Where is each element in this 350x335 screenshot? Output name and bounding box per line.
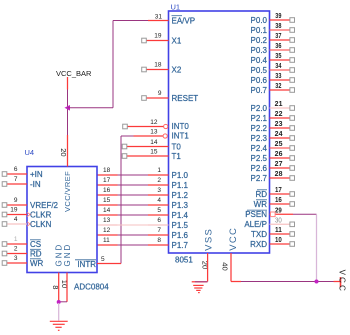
svg-text:13: 13 [150,129,158,136]
U4 pin 1 CS name [30,240,41,249]
svg-text:P0.6: P0.6 [251,76,268,85]
svg-text:P1.0: P1.0 [172,171,189,180]
wire DB3 stub [97,204,118,206]
wire P1.4 stub [148,214,169,216]
wire net DB7 to P1.7 [118,244,149,246]
wire net DB1 to P1.1 [118,184,149,186]
svg-text:T0: T0 [172,142,182,151]
U4 pin 16 number [103,187,111,194]
U1 pin 10 number [275,237,282,244]
U1 pin 24 P2.3 name [251,134,268,143]
svg-text:37: 37 [275,33,281,40]
svg-text:15: 15 [150,149,158,156]
svg-text:23: 23 [275,121,283,128]
U1 pin 18 number [154,62,162,69]
svg-text:3: 3 [14,255,18,262]
svg-text:31: 31 [155,14,163,21]
U4 pin 5 number [101,256,105,263]
terminal square INT0 [123,124,128,129]
svg-text:1: 1 [14,236,18,243]
wire CS U4 stub [7,243,27,245]
wire DB6 stub [97,234,118,236]
svg-text:WR: WR [30,259,44,268]
svg-text:16: 16 [275,197,282,204]
U1 pin 39 number [275,13,281,20]
svg-text:18: 18 [154,62,162,69]
U4 pin 14 DB4 name [78,211,94,220]
wire RD stub [270,193,291,195]
svg-text:16: 16 [103,187,111,194]
terminal square P2.3 [290,136,295,141]
wire net INT1 to INTR vertical [120,136,122,264]
svg-text:24: 24 [275,131,283,138]
wire P2.4 stub [270,147,291,149]
svg-text:EA/VP: EA/VP [172,16,196,25]
U1 pin 1 number [157,167,161,174]
U1 pin 30 ALE/P name [244,220,267,229]
svg-text:12: 12 [103,227,111,234]
wire DB0 stub [97,174,118,176]
svg-text:11: 11 [103,237,110,244]
U1 pin 4 number [157,197,161,204]
U1 pin 16 number [275,197,282,204]
wire P2.3 stub [270,137,291,139]
svg-text:P2.0: P2.0 [251,104,268,113]
wire P2.6 stub [270,167,291,169]
wire P0.4 stub [270,59,291,61]
U4 part value label ADC0804 [74,283,109,292]
U4 pin 8 GND name [54,243,63,267]
wire P0.1 stub [270,29,291,31]
wire VSS stub [207,253,209,282]
wire GND pin10 horizontal [59,301,67,303]
svg-text:28: 28 [275,171,283,178]
U4 pin 6 number [14,166,18,173]
U1 pin 13 INT1 name [172,132,190,141]
U1 pin 4 P1.3 name [172,201,189,210]
wire P0.7 stub [270,89,291,91]
U1 pin 8 P1.7 name [172,241,189,250]
U1 pin 20 VSS name [204,228,215,251]
terminal square U4 CS [2,242,7,247]
svg-text:14: 14 [103,207,111,214]
wire DB5 stub [97,224,118,226]
terminal square P0.4 [290,58,295,63]
U1 pin 38 number [275,23,281,30]
U1 pin 39 P0.0 name [251,16,268,25]
wire INT1 stub [134,135,164,137]
wire INTR stub [97,263,121,265]
terminal square T1 [122,154,127,159]
wire P0.3 stub [270,49,291,51]
svg-text:36: 36 [275,43,281,50]
U1 pin 13 number [150,129,158,136]
terminal square U4 VREF/2 [2,203,7,208]
terminal square P2.5 [290,156,295,161]
svg-text:8051: 8051 [175,256,193,265]
U4 pin 14 number [103,207,111,214]
wire P1.7 stub [148,244,169,246]
U4 pin 12 number [103,227,111,234]
svg-text:34: 34 [275,63,281,70]
U1 pin 40 number [221,262,230,270]
terminal square U4 RD [2,251,7,256]
svg-text:11: 11 [275,227,282,234]
wire T0 stub [127,146,169,148]
U4 pin 19 CLKR name [30,210,52,219]
wire P2.2 stub [270,127,291,129]
U1 pin 2 number [157,177,161,184]
svg-text:VCC_BAR: VCC_BAR [56,69,92,78]
svg-text:PSEN: PSEN [245,210,267,219]
U1 pin 24 number [275,131,283,138]
terminal square P0.3 [290,48,295,53]
U1 pin 7 P1.6 name [172,231,189,240]
svg-text:P1.3: P1.3 [172,201,189,210]
svg-text:RD: RD [30,249,42,258]
U1 pin 33 P0.6 name [251,76,268,85]
U1 pin 19 X1 name [172,36,182,45]
U4 pin 11 DB7 name [78,241,94,250]
terminal square T0 [122,144,127,149]
U1 pin 28 P2.7 name [251,174,268,183]
svg-text:P0.4: P0.4 [251,56,268,65]
svg-text:U1: U1 [171,3,181,12]
wire INT0 stub [128,126,164,128]
U1 part value label 8051 [175,256,193,265]
wire X2 stub [147,69,169,71]
U1 pin 31 number [155,14,163,21]
wire VREF/2 U4 stub [7,204,27,206]
U4 pin 17 number [103,177,111,184]
inversion bubble INT1 [163,134,167,138]
wire RXD stub [270,243,291,245]
terminal square X1 [142,38,147,43]
svg-text:19: 19 [154,33,162,40]
svg-text:6: 6 [157,217,161,224]
svg-text:P2.6: P2.6 [251,164,268,173]
svg-text:10: 10 [275,237,282,244]
junction arrow at VCC_BAR net [65,105,71,111]
terminal square P0.1 [290,28,295,33]
svg-text:15: 15 [103,197,111,204]
U1 pin 3 P1.2 name [172,191,189,200]
U4 pin 15 number [103,197,111,204]
wire RD U4 stub [7,253,27,255]
U1 pin 17 number [275,187,282,194]
U1 pin 23 number [275,121,283,128]
wire DB4 stub [97,214,118,216]
wire pin31 stub [148,20,169,22]
power port VCC right edge [334,270,347,294]
svg-text:5: 5 [157,207,161,214]
U4 pin 3 WR name [30,259,44,268]
svg-text:P0.5: P0.5 [251,66,268,75]
terminal square PSEN at chip edge [271,212,276,217]
clock symbol CLKR [27,212,30,216]
svg-text:18: 18 [103,167,111,174]
U4 pin 4 CLKN name [30,220,52,229]
ground below U4 [50,321,68,330]
wire net VCC_BAR [67,90,69,136]
U1 pin 28 number [275,171,283,178]
svg-text:P0.7: P0.7 [251,86,268,95]
U1 pin 37 number [275,33,281,40]
wire net DB4 to P1.4 [118,214,149,216]
wire GND pin8 stub [58,273,60,303]
U4 pin 9 number [14,197,18,204]
U1 pin 10 RXD name [250,240,267,249]
wire P0.6 stub [270,79,291,81]
svg-text:CLKN: CLKN [30,220,52,229]
wire net EA to VCC_BAR horizontal [68,107,114,109]
svg-text:5: 5 [101,256,105,263]
wire U4 VCC stub [67,135,69,167]
svg-text:33: 33 [275,73,281,80]
U4 pin 5 INTR name [75,260,96,269]
U4 pin 18 number [103,167,111,174]
U1 pin 22 P2.1 name [251,114,268,123]
U1 pin 2 P1.1 name [172,181,189,190]
svg-text:P0.0: P0.0 [251,16,268,25]
svg-text:P1.2: P1.2 [172,191,189,200]
svg-text:2: 2 [157,177,161,184]
terminal square U4 CLKR [2,212,7,217]
wire PSEN stub [270,213,294,215]
terminal square U4 WR [2,261,7,266]
wire TXD stub [270,233,291,235]
U4 pin 10 number [60,280,69,288]
terminal square X2 [142,67,147,72]
wire WR U4 stub [7,262,27,264]
wire net EA horizontal [113,20,148,22]
U4 pin 2 number [14,246,18,253]
svg-text:14: 14 [150,139,158,146]
svg-text:VSS: VSS [204,228,215,251]
U4 pin 13 number [103,217,111,224]
svg-text:35: 35 [275,53,281,60]
svg-text:U4: U4 [25,148,35,157]
svg-text:WR: WR [254,200,268,209]
svg-text:P2.2: P2.2 [251,124,268,133]
terminal square P0.5 [290,68,295,73]
U1 pin 19 number [154,33,162,40]
svg-text:27: 27 [275,161,283,168]
terminal square ALE/P [290,222,295,227]
svg-text:P0.1: P0.1 [251,26,268,35]
svg-text:13: 13 [103,217,111,224]
wire P0.2 stub [270,39,291,41]
U1 pin 35 P0.4 name [251,56,268,65]
U4 pin 9 VREF/2 name [30,201,59,210]
wire CLKR U4 stub [7,214,27,216]
terminal square P2.1 [290,116,295,121]
svg-text:VCC/VREF: VCC/VREF [63,171,72,212]
U1 pin 21 number [275,101,283,108]
wire -IN U4 stub [7,183,27,185]
U1 pin 16 WR name [254,200,268,209]
U1 pin 38 P0.1 name [251,26,268,35]
wire DB1 stub [97,184,118,186]
svg-text:P2.1: P2.1 [251,114,268,123]
wire net EA vertical [112,21,114,108]
wire DB7 stub [97,244,118,246]
svg-text:20: 20 [59,148,68,156]
U1 pin 22 number [275,111,283,118]
U1 designator label [171,3,181,12]
svg-text:VREF/2: VREF/2 [30,201,59,210]
U1 pin 7 number [157,227,161,234]
U1 pin 5 number [157,207,161,214]
U1 pin 32 number [275,83,281,90]
svg-text:P1.6: P1.6 [172,231,189,240]
wire P1.3 stub [148,204,169,206]
U1 pin 40 VCC name [228,227,239,251]
wire P2.0 stub [270,107,291,109]
U1 pin 8 number [157,237,161,244]
wire P1.2 stub [148,194,169,196]
wire net DB3 to P1.3 [118,204,149,206]
svg-text:32: 32 [275,83,281,90]
U1 pin 34 P0.5 name [251,66,268,75]
U1 pin 29 number [275,207,282,214]
wire P0.5 stub [270,69,291,71]
wire P2.7 stub [270,177,291,179]
svg-text:30: 30 [275,217,282,224]
U4 designator label [25,148,35,157]
terminal square RXD [290,242,295,247]
svg-text:P1.7: P1.7 [172,241,189,250]
U1 pin 6 P1.5 name [172,221,189,230]
U1 pin 31 EA/VP name [172,16,196,26]
wire P1.0 stub [148,174,169,176]
wire ALE/P stub faint [270,223,291,225]
svg-text:RESET: RESET [172,94,199,103]
U4 pin 3 number [14,255,18,262]
svg-text:P1.5: P1.5 [172,221,189,230]
svg-text:26: 26 [275,151,283,158]
U1 pin 12 INT0 name [172,122,190,131]
U1 pin 30 number [275,217,282,224]
clock symbol CLKN [27,222,30,226]
svg-text:P0.2: P0.2 [251,36,268,45]
svg-text:6: 6 [14,166,18,173]
U1 pin 14 T0 name [172,142,182,151]
wire T1 stub [127,155,169,157]
terminal square P0.6 [290,78,295,83]
svg-text:RXD: RXD [250,240,267,249]
svg-text:VCC: VCC [338,270,347,294]
svg-text:INTR: INTR [77,260,96,269]
U4 pin 10 GND name [63,243,72,267]
svg-text:VCC: VCC [228,227,239,251]
svg-text:X1: X1 [172,36,182,45]
svg-text:4: 4 [14,216,18,223]
U1 pin 3 number [157,187,161,194]
U1 pin 29 PSEN name [245,210,267,219]
svg-text:40: 40 [221,262,230,270]
inversion bubble INT0 [164,124,168,128]
svg-text:CS: CS [30,240,41,249]
U4 pin 18 DB0 name [78,171,94,180]
U1 pin 33 number [275,73,281,80]
wire P1.5 stub [148,224,169,226]
svg-text:P0.3: P0.3 [251,46,268,55]
U4 pin 16 DB2 name [78,191,94,200]
op-amp U1 8051 microcontroller body [169,11,270,253]
terminal square P2.2 [290,126,295,131]
svg-text:P2.5: P2.5 [251,154,268,163]
U1 pin 36 number [275,43,281,50]
ground below VSS [192,282,208,293]
U1 pin 18 X2 name [172,65,182,74]
U1 pin 15 T1 name [172,152,182,161]
U1 pin 26 P2.5 name [251,154,268,163]
svg-text:2: 2 [14,246,18,253]
terminal square U4 -IN [2,182,7,187]
op-amp U4 ADC0804 body [27,167,97,273]
wire GND pin10 stub [66,273,68,302]
wire net PSEN horizontal [293,213,317,215]
svg-text:TXD: TXD [251,230,267,239]
svg-text:7: 7 [157,227,161,234]
svg-text:CLKR: CLKR [30,210,52,219]
svg-text:3: 3 [157,187,161,194]
U1 pin 23 P2.2 name [251,124,268,133]
wire net PSEN vertical faint [316,214,318,281]
svg-text:19: 19 [10,207,18,214]
terminal square U4 CLKN [2,222,7,227]
terminal square P0.2 [290,38,295,43]
U1 pin 20 number [200,261,209,269]
wire P1.6 stub [148,234,169,236]
U4 pin 15 DB3 name [78,201,94,210]
svg-text:GND: GND [63,243,72,267]
wire P2.1 stub [270,117,291,119]
U1 pin 6 number [157,217,161,224]
U4 pin 13 DB5 name [78,221,94,230]
U4 pin 12 DB6 name [78,231,94,240]
svg-text:T1: T1 [172,152,182,161]
terminal square U4 +IN [2,172,7,177]
U4 pin 17 DB1 name [78,181,94,190]
U1 pin 35 number [275,53,281,60]
U4 pin 2 RD name [30,249,42,258]
terminal square P2.7 [290,176,295,181]
svg-text:4: 4 [157,197,161,204]
wire net DB6 to P1.6 [118,234,149,236]
wire X1 stub [147,40,169,42]
svg-text:29: 29 [275,207,282,214]
svg-text:INT1: INT1 [172,132,190,141]
wire net INT1 to INTR horizontal [121,135,134,137]
U1 pin 25 number [275,141,283,148]
U4 pin 20 number [59,148,68,156]
svg-text:12: 12 [150,119,158,126]
wire P1.1 stub [148,184,169,186]
junction GND net [57,300,61,304]
terminal square RD [290,192,295,197]
junction VCC/PSEN [315,280,319,284]
wire DB2 stub [97,194,118,196]
wire net DB5 to P1.5 [118,224,149,226]
svg-text:ALE/P: ALE/P [244,220,267,229]
svg-text:25: 25 [275,141,283,148]
svg-text:P1.4: P1.4 [172,211,189,220]
svg-text:P2.7: P2.7 [251,174,268,183]
U1 pin 14 number [150,139,158,146]
U1 pin 9 number [158,90,162,97]
